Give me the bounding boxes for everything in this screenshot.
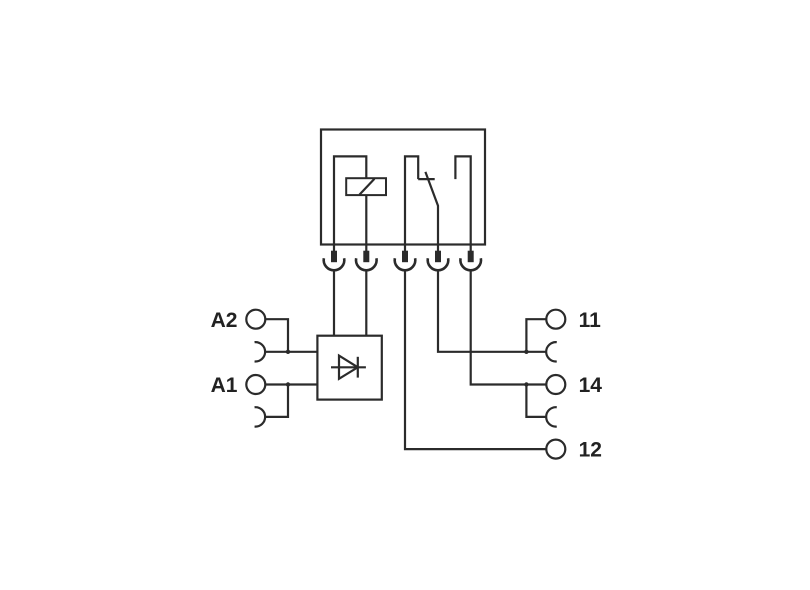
pin 2 plug contact xyxy=(356,251,377,271)
wire pin 2 to input module xyxy=(365,270,367,335)
svg-text:14: 14 xyxy=(579,374,603,397)
terminal 14 screw xyxy=(546,375,565,394)
fixed contact bar xyxy=(418,178,435,180)
pin 5 plug contact xyxy=(460,251,481,271)
wire terminal 14 bridge drop xyxy=(526,385,546,417)
terminal A2 bridge socket xyxy=(255,342,266,361)
wire pin 5 to terminal 14 xyxy=(471,270,547,384)
pin 1 plug contact xyxy=(324,251,345,271)
svg-text:A1: A1 xyxy=(211,374,238,397)
wire coil bottom to pin 2 xyxy=(365,195,367,251)
svg-text:11: 11 xyxy=(579,309,602,332)
relay coil K1 xyxy=(346,178,386,195)
relay module outline K1 xyxy=(321,130,485,245)
wire NC stub riser pin 5 xyxy=(455,156,470,251)
contact lever (moving contact) xyxy=(425,172,438,251)
input module box xyxy=(317,336,381,400)
pin 3 plug contact xyxy=(395,251,416,271)
wire A2 socket to input module xyxy=(264,351,317,353)
terminal A1 screw xyxy=(246,375,265,394)
terminal 11 bridge socket xyxy=(546,342,557,361)
pin 4 plug contact xyxy=(428,251,449,271)
wire coil left branch (pin 1 riser) xyxy=(334,156,366,251)
node junction A1 xyxy=(286,382,290,386)
diode D1 xyxy=(331,356,366,379)
svg-text:12: 12 xyxy=(579,439,602,462)
wire A1 bridge drop xyxy=(264,385,288,417)
wire pin 4 to terminal 11 net xyxy=(438,270,547,352)
terminal A2 screw xyxy=(246,310,265,329)
terminal 12 screw xyxy=(546,440,565,459)
wire terminal A2 to input module xyxy=(265,319,288,352)
wire common contact riser pin 3 xyxy=(405,156,418,251)
terminal A1 bridge socket xyxy=(255,407,266,426)
node junction 11 xyxy=(524,350,528,354)
wire pin 1 to input module xyxy=(333,270,335,335)
wire pin 3 to terminal 12 xyxy=(405,270,546,449)
node junction 14 xyxy=(524,382,528,386)
node junction A2 xyxy=(286,350,290,354)
terminal 14 bridge socket xyxy=(546,407,557,426)
wire terminal A1 to input module xyxy=(265,383,317,385)
svg-text:A2: A2 xyxy=(211,309,238,332)
wire terminal 11 drop xyxy=(526,319,546,352)
terminal 11 screw xyxy=(546,310,565,329)
